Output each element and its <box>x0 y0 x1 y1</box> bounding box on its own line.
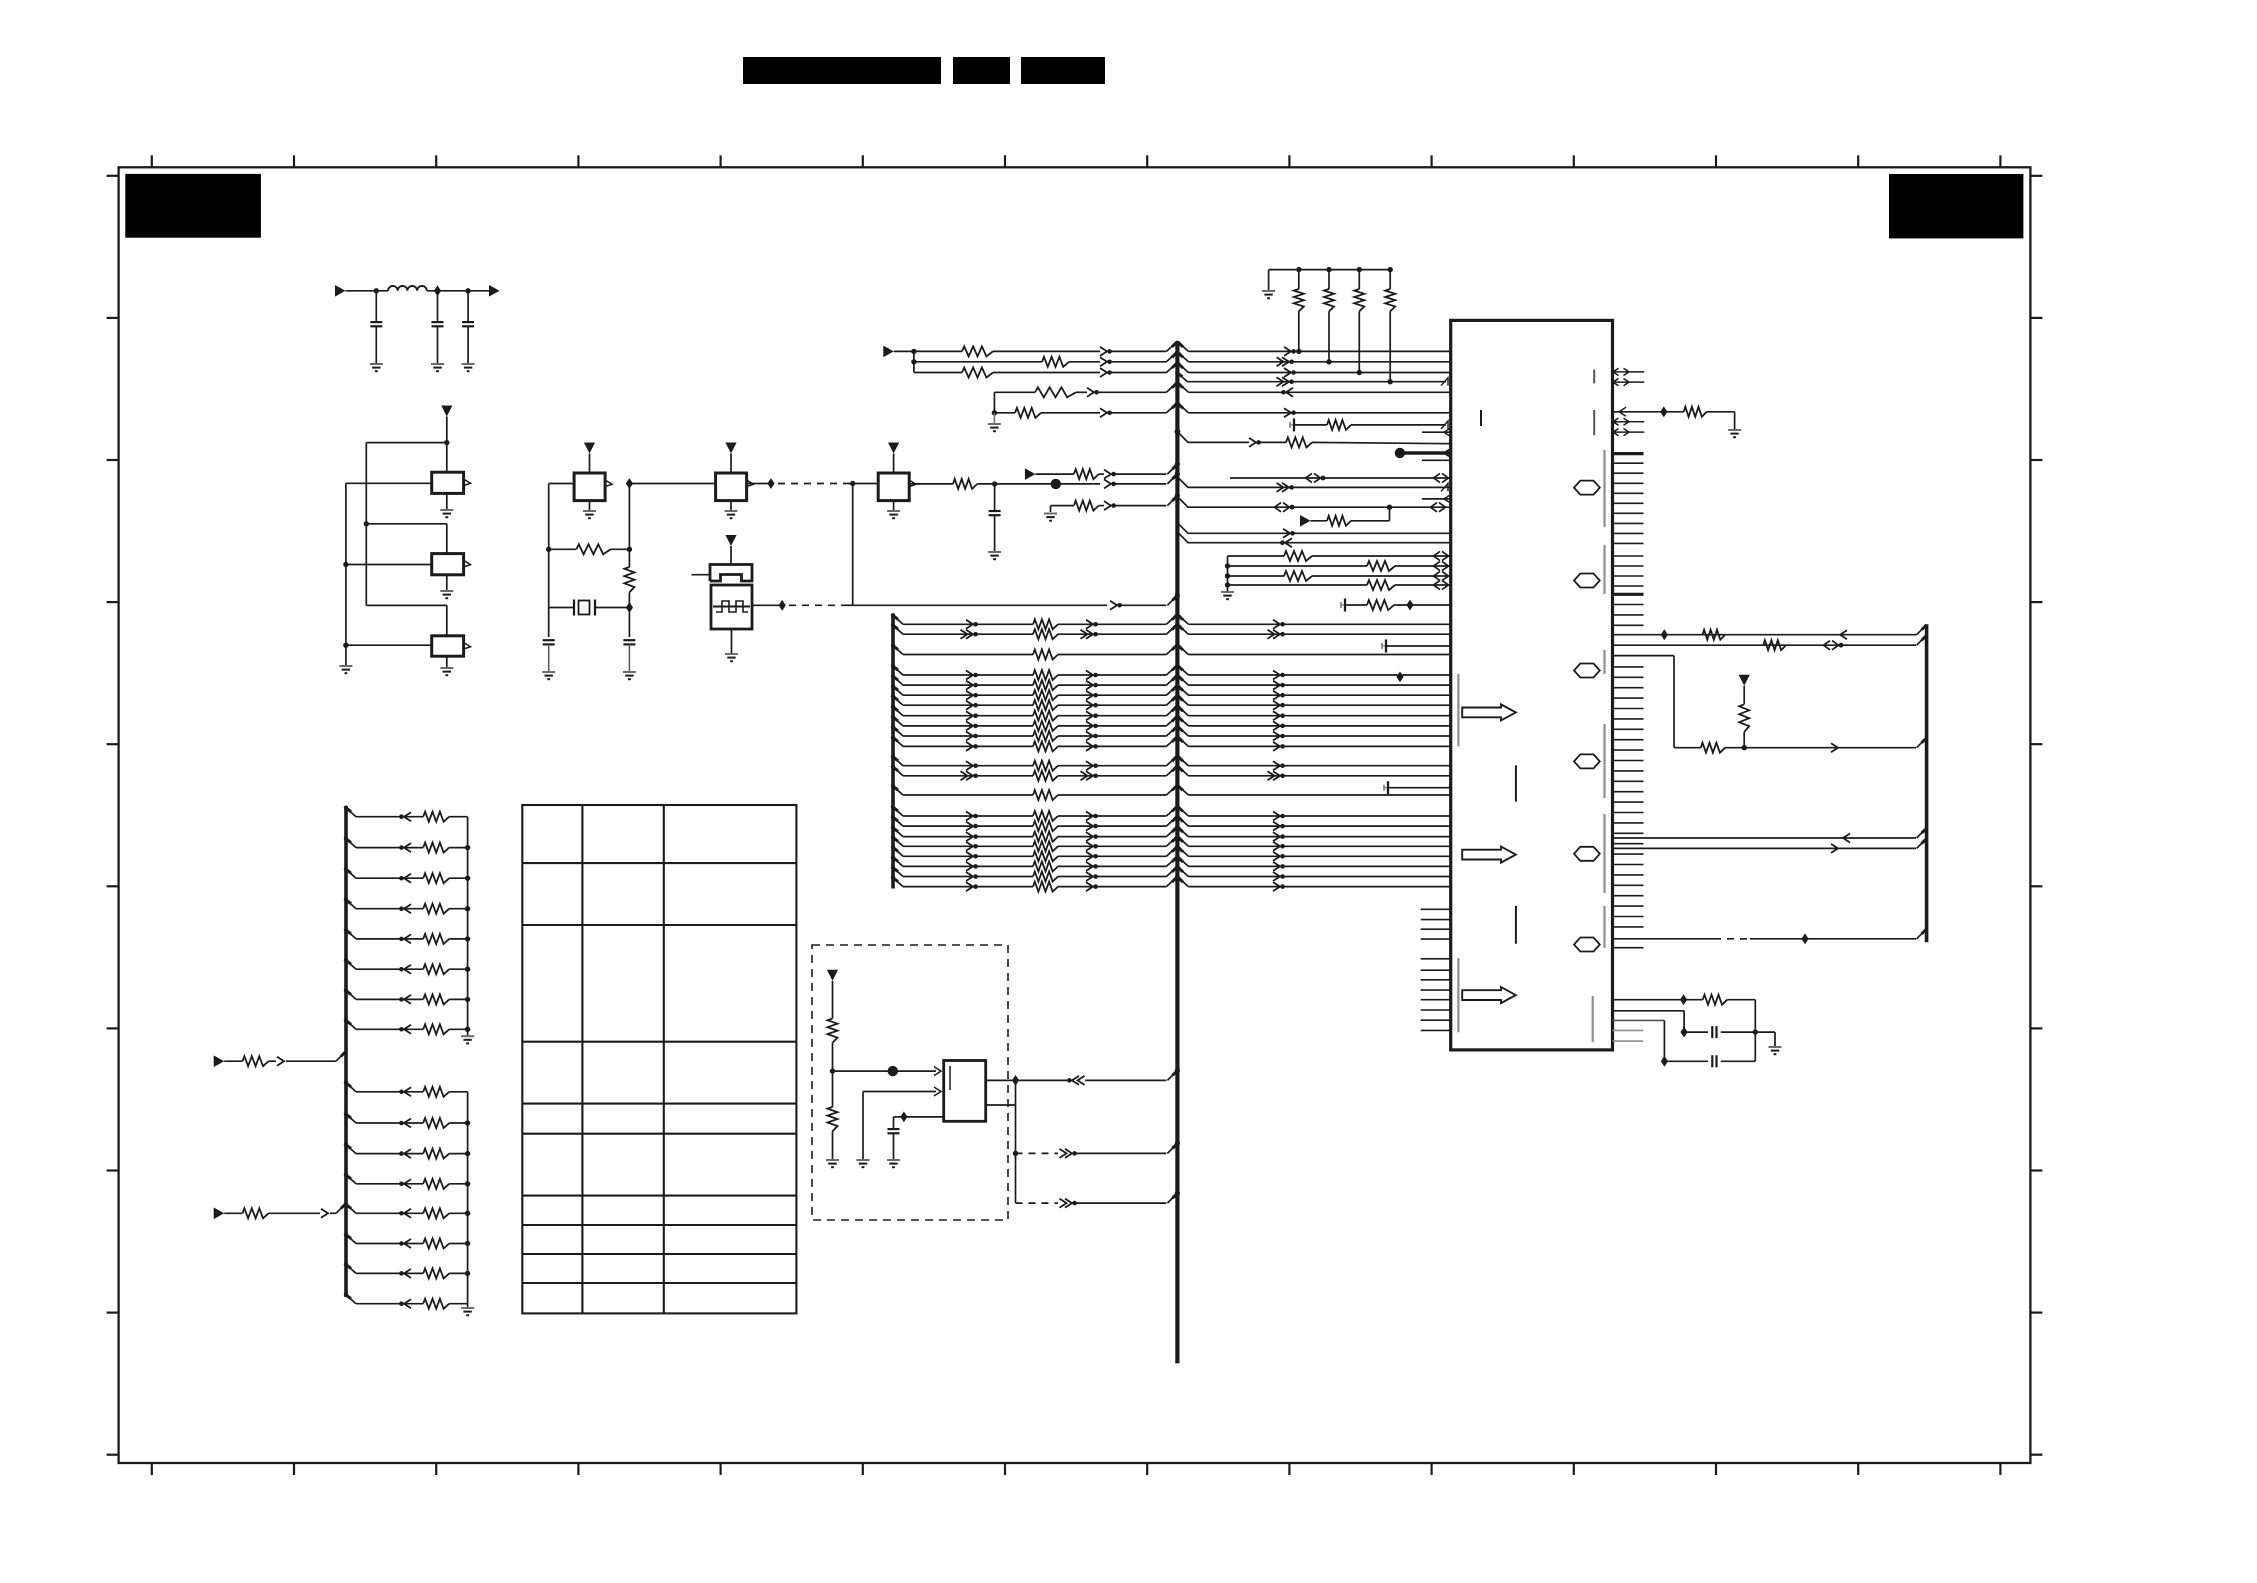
vertical link <box>1015 1080 1017 1203</box>
power arrow VCC4 <box>888 443 899 454</box>
cap-res line <box>1340 602 1342 608</box>
bus wire y685 <box>893 676 903 685</box>
resonator Y1 top <box>710 565 752 582</box>
ladder1 line 5 <box>346 930 356 939</box>
pull-up resistor RP4 <box>1388 267 1393 272</box>
bus wire y634 <box>893 625 903 634</box>
dashed enclosure <box>812 945 1008 1220</box>
bus wire y765 <box>893 757 903 766</box>
node J2 <box>434 285 441 296</box>
ladder2 line 1 <box>346 1083 356 1092</box>
capacitor C9 <box>888 1128 900 1130</box>
power arrow VCC5 <box>725 535 736 546</box>
bus chevron <box>1166 382 1188 392</box>
thick stub <box>1613 593 1644 596</box>
wire <box>629 483 715 485</box>
bus wire y846 <box>893 837 903 846</box>
node J7 <box>343 643 348 648</box>
U10 right pin bidir <box>1613 421 1630 423</box>
wire <box>345 483 347 666</box>
arrowhead <box>1284 347 1291 356</box>
ground <box>339 665 352 667</box>
node J17 <box>911 349 916 354</box>
rail <box>1227 556 1229 592</box>
node J21 <box>1388 379 1393 384</box>
U7 lower output <box>986 1104 1016 1106</box>
pin mark <box>1441 421 1448 429</box>
ladder1 line 2 <box>346 839 356 848</box>
node J6 <box>343 562 348 567</box>
U10 left pin stub <box>1421 1029 1451 1031</box>
pull-up resistor RP2 <box>1326 267 1331 272</box>
ground of C9 <box>887 1159 900 1161</box>
U10 right pin comb <box>1613 463 1644 948</box>
ground of U2 <box>446 575 448 591</box>
ground of U6 <box>893 501 895 511</box>
arrowhead <box>1087 388 1094 397</box>
U10 bidir hex arrow <box>1574 754 1600 768</box>
pull-up resistor RP3 <box>1357 267 1362 272</box>
bus entry <box>1167 595 1177 605</box>
bus wire y746 <box>893 737 903 746</box>
ADC line 1 <box>1228 555 1285 557</box>
ladder1 line 4 <box>346 900 356 909</box>
bus wire y836 <box>893 828 903 837</box>
resistor R4 <box>1035 473 1074 475</box>
title block top-right (redacted) <box>1889 174 2023 238</box>
U7 output wire <box>986 1079 1016 1081</box>
node J13 <box>850 481 855 486</box>
U10 block arrow <box>1462 847 1516 863</box>
gray pin stub <box>1613 1029 1644 1031</box>
crystal X1 <box>549 607 574 609</box>
dashed wire <box>789 604 845 606</box>
bus entry <box>1167 1143 1177 1153</box>
U10 left pin stub <box>1421 1019 1451 1021</box>
resistor R2 <box>624 567 634 592</box>
bus wire y675 <box>893 666 903 675</box>
node J9 <box>627 547 632 552</box>
node J15 <box>992 481 997 486</box>
arrowhead <box>1282 377 1289 386</box>
wire from bus <box>1175 429 1181 435</box>
resistor R3 <box>909 483 953 485</box>
regulator U2 <box>432 554 464 575</box>
U10 bidir hex arrow <box>1574 664 1600 678</box>
right bus <box>1925 624 1929 942</box>
bus entry <box>1167 1193 1177 1203</box>
U10 interior gray bus bar <box>1603 906 1605 948</box>
wire <box>833 1070 937 1072</box>
node J29 <box>1012 1075 1019 1086</box>
capacitor C4 <box>543 639 555 641</box>
wire <box>548 484 550 638</box>
U10 interior gray bar left <box>1457 958 1459 1032</box>
cap stub line <box>1289 422 1291 428</box>
filter output arrow <box>489 285 500 297</box>
resistor R14 <box>1327 516 1351 526</box>
frame tick marks <box>107 155 2043 1475</box>
U10 bidir hex arrow <box>1574 481 1600 495</box>
ground <box>993 413 995 424</box>
node J18 <box>1296 349 1301 354</box>
ground of C6 <box>988 551 1001 553</box>
bus entry <box>1167 1070 1177 1080</box>
arrowhead <box>1100 368 1107 377</box>
arrowhead <box>934 1067 941 1076</box>
arrowhead <box>1110 601 1117 610</box>
wire <box>346 482 432 484</box>
bus wire y876 <box>893 868 903 877</box>
U10 interior gray bus bar <box>1603 450 1605 527</box>
arrowhead <box>1100 357 1107 366</box>
line from IC <box>1177 532 1450 543</box>
ladder1 line 1 <box>346 808 356 817</box>
comparator U7 <box>944 1061 986 1122</box>
bus chevron <box>1166 352 1188 362</box>
wire <box>366 442 447 444</box>
capacitor C5 <box>623 639 635 641</box>
bus exit line 4 <box>1177 373 1187 382</box>
U10 interior gray bus bar <box>1603 545 1605 594</box>
resistor R10 <box>1035 387 1076 397</box>
U10 right pin bidir <box>1613 381 1630 383</box>
dashed wire <box>778 483 845 485</box>
U10 interior tick <box>1515 765 1517 801</box>
pin stub <box>1422 431 1451 433</box>
line to right bus 6 <box>1613 938 1715 940</box>
wire <box>346 564 432 566</box>
dashed output 2 <box>1016 1202 1059 1204</box>
pull-up resistor RP1 <box>1296 267 1301 272</box>
filter input arrow <box>335 285 346 297</box>
node J22 <box>1387 505 1392 510</box>
ground of C2 <box>431 363 444 365</box>
bus wire y695 <box>893 686 903 695</box>
resistor R1 <box>549 548 577 550</box>
node J19 <box>1326 359 1331 364</box>
bus wire y736 <box>893 727 903 736</box>
arrowhead <box>1284 408 1291 417</box>
ladder1 line 3 <box>346 869 356 878</box>
power arrow VCC3 <box>725 443 736 454</box>
ladder2 line 8 <box>346 1295 356 1304</box>
pin stub <box>1422 498 1451 500</box>
arrowhead <box>1104 470 1111 479</box>
page border frame <box>119 167 2031 1463</box>
arrowhead <box>1100 408 1107 417</box>
bus wire y705 <box>893 696 903 705</box>
table grid <box>522 805 796 1313</box>
RC line 3 <box>1613 1019 1665 1021</box>
cap stub line <box>1383 785 1385 791</box>
resonator Y1 body <box>711 585 752 629</box>
rail ground <box>1221 591 1234 593</box>
capacitor C1 <box>375 291 377 322</box>
wire <box>845 604 853 606</box>
line to right bus 3 <box>1613 655 1675 657</box>
resistor R11 <box>994 412 1015 414</box>
ground <box>1728 429 1741 431</box>
ladder2 line 4 <box>346 1175 356 1184</box>
bidir bus line <box>1177 497 1450 508</box>
wire <box>914 361 1042 363</box>
bus wire y866 <box>893 857 903 866</box>
node J14 <box>779 600 786 611</box>
resistor R6 <box>962 346 993 356</box>
node J25 <box>1753 1029 1758 1034</box>
ground of U1 <box>446 493 448 510</box>
U10 left pin stub <box>1421 958 1451 960</box>
node J30 <box>1013 1151 1018 1156</box>
resistor R16 <box>828 1019 838 1043</box>
ground-sourced wire <box>1044 513 1057 515</box>
RC line 2 <box>1613 1010 1685 1012</box>
wire <box>628 484 630 568</box>
bus chevron <box>1166 341 1188 351</box>
ground of Y1 <box>731 629 733 654</box>
filter wire 2 <box>427 290 489 292</box>
wire <box>852 484 854 606</box>
U10 left pin stub <box>1421 908 1451 910</box>
node J27 <box>888 1066 898 1076</box>
node J26 <box>830 1068 835 1073</box>
ladder1 line 7 <box>346 990 356 999</box>
ladder2 line 2 <box>346 1114 356 1123</box>
node J16 <box>1051 479 1061 489</box>
power arrow VCC6 <box>1739 675 1750 686</box>
ladder input 1 <box>214 1055 225 1067</box>
line to right bus 5 <box>1613 847 1917 849</box>
line to right bus 1 <box>1613 634 1917 636</box>
resistor R12 <box>1327 420 1351 430</box>
U10 left pin stub <box>1421 969 1451 971</box>
arrowhead <box>1284 368 1291 377</box>
ladder1 line 6 <box>346 960 356 969</box>
rail ground <box>1262 290 1275 292</box>
ladder input 2 <box>214 1208 225 1220</box>
arrowhead <box>1286 388 1293 397</box>
wire <box>366 523 447 525</box>
resonator output wire <box>752 604 782 606</box>
pull-up rail <box>1269 269 1390 271</box>
node J10 <box>626 478 633 489</box>
resistor R5 <box>1074 501 1099 511</box>
wire <box>994 391 1035 393</box>
U10 interior gray bar <box>1593 370 1595 384</box>
capacitor C6 <box>994 484 996 511</box>
node J8 <box>546 547 551 552</box>
arrowhead <box>1282 357 1289 366</box>
U10 left pin stub <box>1421 999 1451 1001</box>
reset line with resistor <box>1613 411 1684 413</box>
bus wire y715 <box>893 707 903 716</box>
RC line 1 <box>1613 999 1703 1001</box>
U10 block arrow <box>1462 704 1516 720</box>
U10 block arrow <box>1462 987 1516 1003</box>
bus chevron <box>1166 403 1188 413</box>
node J4 <box>444 440 449 445</box>
buffer U6 <box>878 473 909 501</box>
node J28 <box>900 1112 907 1123</box>
bus chevron <box>1166 363 1188 373</box>
node J21b <box>992 410 997 415</box>
node J5 <box>364 521 369 526</box>
wire <box>995 483 1100 485</box>
ladder bus <box>344 807 348 1297</box>
arrowhead <box>1100 347 1107 356</box>
node J23 <box>1406 600 1413 611</box>
squarewave glyph <box>716 601 748 612</box>
wire <box>913 351 915 372</box>
bus entry <box>1167 464 1177 474</box>
dashed output 1 <box>1016 1152 1059 1154</box>
power arrow VCC2 <box>584 443 595 454</box>
thick stub <box>1613 452 1644 455</box>
ground of C5 <box>623 671 636 673</box>
arrowhead <box>1072 1076 1079 1085</box>
capacitor C2 <box>437 291 439 322</box>
node J12 <box>747 483 771 485</box>
line to right bus 2 <box>1613 644 1917 646</box>
resistor R17 <box>828 1107 838 1131</box>
ladder2 line 7 <box>346 1264 356 1273</box>
cap stub line <box>1381 643 1383 649</box>
U10 interior tick <box>1480 410 1482 426</box>
pin stub <box>1422 459 1451 461</box>
node J24 <box>1396 672 1403 683</box>
wire <box>863 1091 936 1093</box>
arrowhead <box>1831 743 1838 752</box>
U10 interior gray bar left <box>1457 674 1459 747</box>
ADC line 3 <box>1225 573 1230 578</box>
pin mark <box>1441 483 1448 491</box>
U10 bidir hex arrow <box>1574 938 1600 952</box>
ladder1 ground <box>461 1035 474 1037</box>
regulator U3 <box>432 636 464 656</box>
ground of R17 <box>826 1159 839 1161</box>
capacitor C8 <box>1711 1055 1713 1067</box>
title bar block 3 (redacted) <box>1021 57 1105 84</box>
ADC line 4 <box>1225 582 1230 587</box>
resistor RV1 <box>1739 704 1749 732</box>
arrowhead <box>1104 501 1111 510</box>
ladder rail 1 <box>467 817 469 1036</box>
ladder rail 2 <box>467 1092 469 1308</box>
wire <box>904 1116 944 1118</box>
U10 right pin bidir <box>1613 431 1630 433</box>
U10 interior gray bus bar <box>1603 724 1605 798</box>
ladder2 line 5 <box>346 1204 356 1213</box>
wire <box>894 350 962 352</box>
U10 left pin stub <box>1421 979 1451 981</box>
arrowhead <box>934 1087 941 1096</box>
bus wire y816 <box>893 807 903 816</box>
wire <box>365 443 367 606</box>
ground of C3 <box>462 363 475 365</box>
ground of C1 <box>370 363 383 365</box>
ADC line 2 <box>1225 563 1230 568</box>
microcontroller U10 <box>1451 320 1613 1050</box>
ground of U4 <box>589 501 591 511</box>
ground of U3 <box>446 656 448 668</box>
bus wire y886 <box>893 878 903 887</box>
U10 interior tick <box>1515 906 1517 944</box>
ladder2 ground <box>461 1307 474 1309</box>
bus wire y795 <box>893 786 903 795</box>
U10 bidir hex arrow <box>1574 847 1600 861</box>
node J3 <box>465 288 470 293</box>
bundle feeder bus <box>891 616 895 889</box>
buffer U5 <box>716 473 747 501</box>
U10 left pin stub <box>1421 919 1451 921</box>
ladder2 line 3 <box>346 1145 356 1154</box>
U10 left pin stub <box>1421 1009 1451 1011</box>
power arrow VCC1 <box>441 406 452 417</box>
regulator U1 <box>432 472 464 493</box>
U10 left pin stub <box>1421 989 1451 991</box>
heavy select line <box>1395 448 1405 458</box>
node J11 <box>626 602 633 613</box>
wire <box>366 604 447 606</box>
ground <box>857 1159 870 1161</box>
bus wire y624 <box>893 615 903 624</box>
title block top-left (redacted) <box>125 174 261 238</box>
U10 interior gray bus bar <box>1603 814 1605 893</box>
capacitor C7 <box>1711 1026 1713 1038</box>
gray pin stub <box>1613 1040 1644 1042</box>
bus wire y856 <box>893 847 903 856</box>
bus wire y826 <box>893 817 903 826</box>
title bar block 1 (redacted) <box>743 57 941 84</box>
bidir line <box>1230 477 1451 479</box>
branch with input arrow <box>1389 507 1391 521</box>
resistor R8 <box>962 368 993 378</box>
U10 bidir hex arrow <box>1574 574 1600 588</box>
node J20 <box>1357 370 1362 375</box>
input arrow B <box>883 346 894 358</box>
ground of C4 <box>542 671 555 673</box>
ladder2 line 6 <box>346 1235 356 1244</box>
bus wire y654 <box>893 646 903 655</box>
oscillator box U4 <box>574 473 605 501</box>
title bar block 2 (redacted) <box>953 57 1010 84</box>
resistor R7 <box>1042 357 1069 367</box>
node J1 <box>374 288 379 293</box>
filter wire <box>346 290 389 292</box>
U10 left pin stub <box>1421 938 1451 940</box>
wire <box>549 483 574 485</box>
inductor L1 <box>388 286 427 291</box>
wire <box>914 372 962 374</box>
line to right bus 4 <box>1613 837 1917 839</box>
wire into resonator <box>692 574 711 576</box>
bus entry <box>1167 496 1177 506</box>
bus entry <box>1167 474 1177 484</box>
power arrow VCC7 <box>827 970 838 981</box>
pin mark <box>1441 378 1448 386</box>
bus line to IC <box>1177 477 1450 487</box>
ground branch <box>1755 1031 1775 1033</box>
central bus <box>1175 341 1179 1363</box>
wire resonator to bus <box>853 604 1107 606</box>
U10 interior gray bus bar <box>1592 996 1594 1042</box>
U10 interior gray bar <box>1593 410 1595 435</box>
U10 left pin stub <box>1421 928 1451 930</box>
bus wire y725 <box>893 717 903 726</box>
resistor R13 <box>1286 437 1312 447</box>
U10 interior gray bus bar <box>1603 650 1605 674</box>
